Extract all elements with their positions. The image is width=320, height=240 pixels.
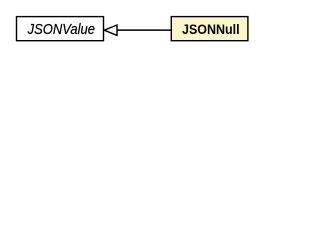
svg-text:JSONNull: JSONNull bbox=[182, 21, 240, 37]
background bbox=[0, 0, 264, 59]
wire: inheritance edge line bbox=[117, 29, 172, 31]
class box JSONValue (abstract superclass) bbox=[17, 17, 104, 41]
class box JSONNull (highlighted current class) bbox=[171, 17, 248, 41]
svg-text:JSONValue: JSONValue bbox=[27, 21, 96, 37]
inheritance arrowhead (hollow triangle) bbox=[104, 25, 117, 35]
